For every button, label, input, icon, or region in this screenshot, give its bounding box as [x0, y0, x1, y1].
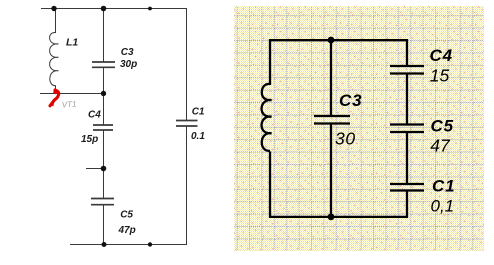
svg-text:30: 30 — [335, 129, 356, 149]
svg-text:0,1: 0,1 — [431, 196, 455, 215]
svg-text:C4: C4 — [430, 46, 453, 65]
svg-text:0.1: 0.1 — [191, 131, 205, 142]
svg-text:15p: 15p — [81, 134, 98, 145]
svg-text:C5: C5 — [431, 116, 454, 135]
svg-text:30p: 30p — [120, 59, 137, 70]
svg-text:C3: C3 — [121, 47, 134, 58]
svg-text:C5: C5 — [120, 209, 133, 220]
svg-text:C1: C1 — [192, 106, 205, 117]
svg-text:15: 15 — [430, 65, 450, 85]
svg-text:VT1: VT1 — [62, 99, 77, 109]
svg-text:C4: C4 — [88, 109, 101, 120]
svg-text:47p: 47p — [118, 225, 136, 236]
svg-text:C1: C1 — [432, 176, 455, 195]
svg-text:C3: C3 — [339, 91, 362, 110]
svg-text:47: 47 — [430, 136, 451, 156]
svg-text:L1: L1 — [66, 37, 78, 49]
